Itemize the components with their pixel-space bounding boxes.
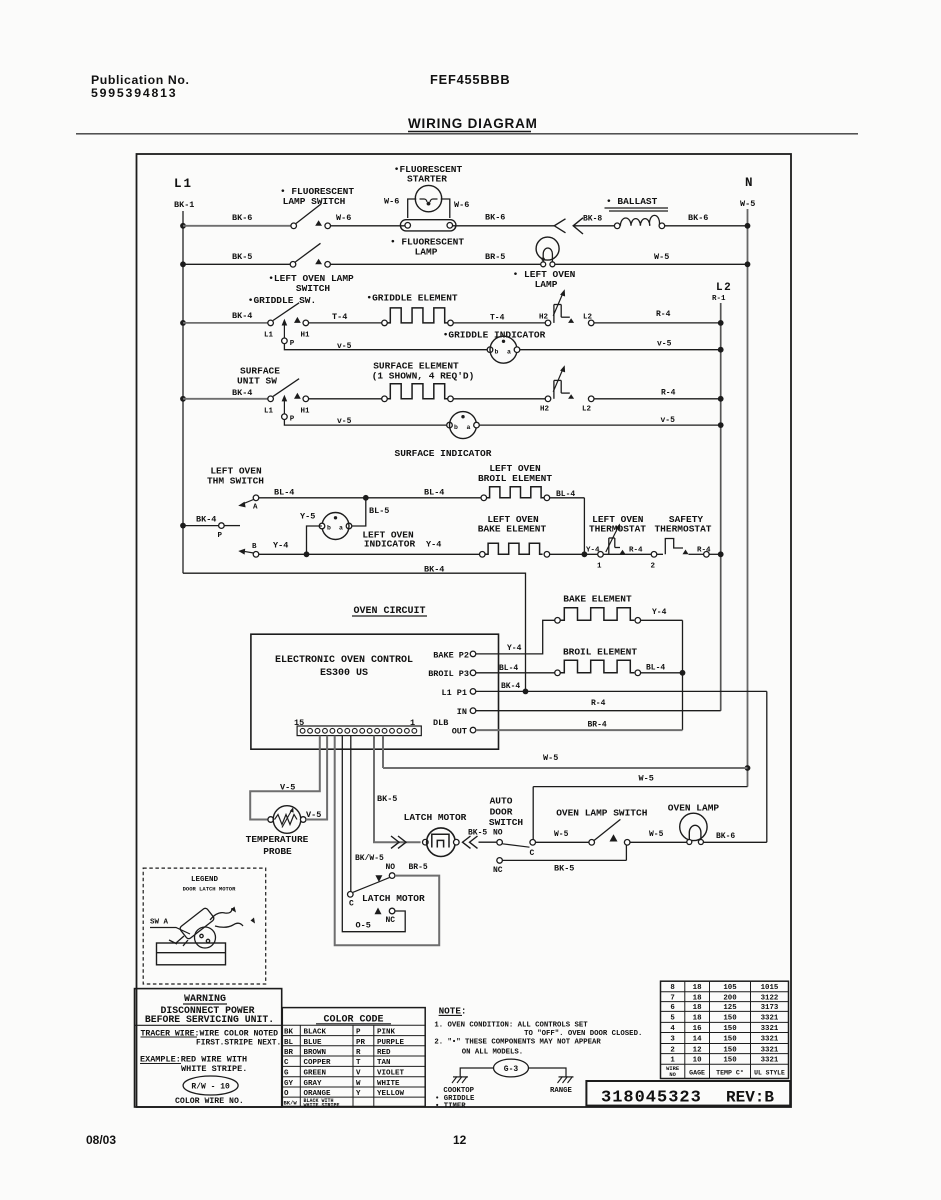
svg-text:COLOR WIRE NO.: COLOR WIRE NO. bbox=[175, 1097, 244, 1106]
svg-text:BK-6: BK-6 bbox=[485, 213, 505, 223]
svg-text:(1 SHOWN, 4 REQ'D): (1 SHOWN, 4 REQ'D) bbox=[372, 370, 475, 381]
lamp left oven lamp bbox=[536, 237, 559, 260]
svg-text:TEMP C°: TEMP C° bbox=[716, 1068, 744, 1076]
wire corner down to row B bbox=[583, 498, 585, 555]
svg-text:• BALLAST: • BALLAST bbox=[606, 196, 658, 207]
svg-text:YELLOW: YELLOW bbox=[377, 1090, 405, 1098]
terminal NC latch interlock bbox=[389, 908, 395, 914]
wire rail5 R-4 to L2 bbox=[594, 398, 721, 400]
svg-text:18: 18 bbox=[693, 1015, 702, 1023]
terminal 1 bbox=[598, 552, 604, 558]
svg-text:DOOR: DOOR bbox=[490, 806, 513, 817]
svg-text:L1: L1 bbox=[264, 332, 274, 340]
svg-text:BK-5: BK-5 bbox=[232, 252, 252, 262]
fluorescent starter bbox=[415, 185, 441, 211]
connector G-3 ellipse bbox=[494, 1059, 529, 1077]
legend box dashed frame bbox=[143, 868, 266, 984]
svg-text:RED: RED bbox=[377, 1049, 391, 1057]
wire W-5 pin drop bbox=[382, 736, 384, 768]
wire BL-5 down to indicator bbox=[352, 498, 366, 526]
part number box bbox=[586, 1081, 790, 1106]
svg-text:VIOLET: VIOLET bbox=[377, 1070, 405, 1078]
svg-text:H1: H1 bbox=[301, 407, 311, 415]
svg-text:W-5: W-5 bbox=[740, 199, 755, 209]
wire G-3 right to range ground bbox=[529, 1068, 567, 1077]
svg-text:12: 12 bbox=[693, 1046, 702, 1054]
svg-text:105: 105 bbox=[723, 984, 737, 992]
svg-text:WIRING DIAGRAM: WIRING DIAGRAM bbox=[408, 116, 538, 131]
svg-text:ELECTRONIC OVEN CONTROL: ELECTRONIC OVEN CONTROL bbox=[275, 655, 413, 666]
svg-text:18: 18 bbox=[693, 994, 702, 1002]
svg-text:OVEN LAMP: OVEN LAMP bbox=[668, 803, 720, 814]
svg-text:C: C bbox=[530, 849, 535, 858]
thermistor temperature probe bbox=[268, 817, 274, 823]
svg-text:NO: NO bbox=[386, 863, 396, 872]
svg-text:3321: 3321 bbox=[761, 1015, 779, 1023]
svg-text:Y-4: Y-4 bbox=[652, 608, 667, 617]
wire N right rail bbox=[747, 209, 749, 787]
wire broil element to junction bbox=[641, 672, 683, 674]
wire rail5 to surface element bbox=[309, 398, 382, 400]
svg-text:L2: L2 bbox=[716, 282, 732, 294]
wire gauge table grid bbox=[661, 991, 789, 993]
warning separator line bbox=[135, 1024, 282, 1026]
svg-text:NOTE:: NOTE: bbox=[439, 1005, 467, 1016]
svg-text:1. OVEN CONDITION: ALL CONTROL: 1. OVEN CONDITION: ALL CONTROLS SET bbox=[434, 1021, 588, 1029]
switch griddle switch pole L1-H1 bbox=[268, 320, 274, 326]
wire BK-4 stub to terminal P bbox=[183, 525, 219, 527]
svg-text:BK-5: BK-5 bbox=[377, 794, 397, 804]
svg-text:OUT: OUT bbox=[452, 727, 467, 737]
svg-text:Y-5: Y-5 bbox=[300, 512, 315, 522]
svg-text:LAMP: LAMP bbox=[415, 247, 438, 258]
svg-text:R/W - 10: R/W - 10 bbox=[191, 1083, 230, 1092]
ground cooktop bbox=[453, 1076, 468, 1078]
chevrons latch motor right bbox=[463, 836, 471, 848]
svg-text:N: N bbox=[745, 176, 753, 190]
svg-text:3122: 3122 bbox=[761, 994, 779, 1002]
svg-text:GRAY: GRAY bbox=[304, 1080, 323, 1088]
wire rail1 BK-6 from L1 to fluorescent lamp switch bbox=[183, 225, 291, 227]
wire O-5 NC loop to connector bbox=[342, 736, 405, 932]
wire C drop auto door switch bbox=[532, 787, 534, 840]
svg-text:C: C bbox=[349, 900, 354, 909]
svg-text:v-5: v-5 bbox=[657, 340, 672, 349]
svg-text:BK: BK bbox=[284, 1029, 294, 1037]
svg-text:W-5: W-5 bbox=[639, 774, 654, 784]
svg-text:Y-4: Y-4 bbox=[273, 541, 288, 551]
wire rail1 BK-6 lamp to ballast arrow bbox=[453, 225, 555, 227]
svg-text:C: C bbox=[284, 1059, 289, 1067]
wire G-3 left to cooktop ground bbox=[460, 1068, 493, 1077]
svg-text:P: P bbox=[290, 416, 295, 424]
svg-text:1015: 1015 bbox=[761, 984, 779, 992]
wire W-5 C to oven lamp switch bbox=[536, 841, 589, 843]
terminal P thm switch bbox=[219, 523, 225, 529]
junction dots on L1 rail bbox=[180, 223, 186, 229]
svg-text:T-4: T-4 bbox=[332, 312, 347, 322]
resistor bake element oven circuit bbox=[555, 618, 561, 624]
example wire code ellipse R/W - 10 bbox=[183, 1076, 238, 1095]
wire rail2 BK-5 from L1 bbox=[183, 263, 290, 265]
svg-text:BK/W-5: BK/W-5 bbox=[355, 854, 384, 863]
svg-text:200: 200 bbox=[723, 994, 737, 1002]
terminal B bbox=[253, 552, 259, 558]
svg-text:DOOR LATCH MOTOR: DOOR LATCH MOTOR bbox=[183, 886, 237, 893]
wire Y-4 bake element to corner bbox=[641, 619, 683, 621]
junction dots on N rail bbox=[745, 223, 751, 229]
indicator left oven indicator bbox=[346, 523, 352, 529]
svg-text:16: 16 bbox=[693, 1025, 702, 1033]
svg-text:G-3: G-3 bbox=[504, 1065, 519, 1074]
svg-text:SWITCH: SWITCH bbox=[296, 283, 331, 294]
svg-text:BK-5: BK-5 bbox=[554, 864, 574, 874]
svg-text:BROIL ELEMENT: BROIL ELEMENT bbox=[563, 647, 637, 658]
connector strip P15-P1 bbox=[297, 726, 421, 736]
svg-text:R-4: R-4 bbox=[661, 389, 676, 398]
terminal safety right bbox=[704, 552, 710, 558]
svg-text:WHITE STRIPE.: WHITE STRIPE. bbox=[181, 1064, 247, 1074]
svg-text:L1: L1 bbox=[174, 177, 193, 191]
svg-text:WHITE STRIPE: WHITE STRIPE bbox=[304, 1102, 340, 1108]
junction dot BK-4 on L1P1 bbox=[523, 689, 529, 695]
terminal 2 bbox=[651, 552, 657, 558]
switch oven lamp switch bbox=[589, 840, 595, 846]
svg-text:3321: 3321 bbox=[761, 1036, 779, 1044]
svg-text:08/03: 08/03 bbox=[86, 1133, 116, 1147]
svg-text:LATCH MOTOR: LATCH MOTOR bbox=[404, 812, 467, 823]
wire BK/W-5 pin drop to C bbox=[350, 736, 352, 892]
color code table grid bbox=[282, 1024, 425, 1026]
svg-text:BL-4: BL-4 bbox=[646, 664, 665, 673]
svg-text:BR-4: BR-4 bbox=[588, 721, 607, 730]
svg-text:TO "OFF". OVEN DOOR CLOSED.: TO "OFF". OVEN DOOR CLOSED. bbox=[524, 1030, 642, 1038]
svg-text:O-5: O-5 bbox=[356, 921, 371, 931]
svg-text:BLACK: BLACK bbox=[304, 1029, 327, 1037]
svg-text:BK-5: BK-5 bbox=[468, 829, 487, 838]
svg-text:5995394813: 5995394813 bbox=[91, 86, 177, 100]
svg-text:NO: NO bbox=[493, 829, 503, 838]
terminal NC auto door switch bbox=[497, 858, 503, 864]
resistor left oven bake element bbox=[480, 552, 486, 558]
svg-text:B: B bbox=[252, 543, 257, 551]
svg-text:TEMPERATURE: TEMPERATURE bbox=[246, 834, 309, 845]
svg-text:O: O bbox=[284, 1090, 289, 1098]
svg-text:b: b bbox=[327, 525, 331, 532]
svg-text:BROIL ELEMENT: BROIL ELEMENT bbox=[478, 473, 552, 484]
svg-text:4: 4 bbox=[670, 1025, 675, 1033]
door latch motor base bbox=[157, 943, 226, 965]
svg-text:INDICATOR: INDICATOR bbox=[364, 539, 416, 550]
svg-text:REV:B: REV:B bbox=[726, 1089, 774, 1107]
svg-text:PR: PR bbox=[356, 1039, 366, 1047]
svg-text:V-5: V-5 bbox=[280, 783, 295, 793]
svg-text:LATCH MOTOR: LATCH MOTOR bbox=[362, 893, 425, 904]
svg-text:NC: NC bbox=[493, 866, 503, 875]
svg-text:•GRIDDLE INDICATOR: •GRIDDLE INDICATOR bbox=[443, 330, 546, 341]
wire rail2 W-5 to N bbox=[555, 263, 747, 265]
svg-text:18: 18 bbox=[693, 984, 702, 992]
switch blades thm switch bbox=[243, 500, 254, 504]
svg-text:v-5: v-5 bbox=[337, 417, 352, 426]
diagram border frame bbox=[137, 154, 792, 1107]
svg-text:8: 8 bbox=[670, 984, 675, 992]
wire P to v-5 rail4 bbox=[284, 344, 488, 350]
svg-text:UNIT SW: UNIT SW bbox=[237, 376, 277, 387]
wire rail3 T-4 to griddle thermostat bbox=[453, 322, 545, 324]
svg-text:a: a bbox=[467, 424, 471, 431]
indicator surface indicator bbox=[447, 422, 453, 428]
svg-text:THM SWITCH: THM SWITCH bbox=[207, 476, 264, 487]
resistor left oven broil element bbox=[481, 495, 487, 501]
svg-text:BL-4: BL-4 bbox=[556, 490, 575, 499]
svg-text:BK-4: BK-4 bbox=[501, 682, 520, 691]
svg-text:BK-4: BK-4 bbox=[196, 515, 216, 525]
svg-text:BAKE ELEMENT: BAKE ELEMENT bbox=[478, 524, 547, 535]
warning box frame bbox=[135, 989, 282, 1107]
svg-text:FIRST.STRIPE NEXT.: FIRST.STRIPE NEXT. bbox=[196, 1038, 281, 1047]
junction dot BL-5 tap bbox=[363, 495, 369, 501]
svg-text:BK-4: BK-4 bbox=[424, 565, 444, 575]
wire BK-4 from L1 rail bottom bbox=[183, 573, 526, 691]
switch left oven lamp switch bbox=[290, 262, 296, 268]
wire rail1 BK-6 ballast to N bbox=[665, 225, 748, 227]
svg-text:THERMOSTAT: THERMOSTAT bbox=[654, 524, 711, 535]
switch blade C to NO bbox=[353, 878, 389, 893]
svg-text:GAGE: GAGE bbox=[689, 1069, 705, 1076]
wire L2 rail bbox=[720, 303, 722, 711]
resistor griddle element bbox=[382, 320, 388, 326]
svg-text:2: 2 bbox=[670, 1046, 674, 1054]
wire bake to junction bbox=[550, 553, 598, 555]
header rule line bbox=[76, 133, 858, 135]
svg-text:BK-4: BK-4 bbox=[232, 388, 252, 398]
svg-text:TAN: TAN bbox=[377, 1059, 391, 1067]
svg-text:WARNING: WARNING bbox=[184, 994, 226, 1005]
terminal C latch interlock bbox=[348, 892, 354, 898]
wire to L2 junction bbox=[709, 553, 721, 555]
svg-text:Y-4: Y-4 bbox=[426, 540, 441, 550]
wire rail2 BR-5 to left oven lamp bbox=[330, 263, 540, 265]
svg-text:P: P bbox=[356, 1029, 361, 1037]
svg-text:L2: L2 bbox=[582, 405, 592, 413]
svg-text:W-6: W-6 bbox=[454, 200, 469, 210]
svg-text:3321: 3321 bbox=[761, 1046, 779, 1054]
color code table frame bbox=[282, 1008, 425, 1107]
inductor ballast coil bbox=[614, 223, 620, 229]
svg-text:IN: IN bbox=[457, 707, 467, 717]
svg-text:2. "•" THESE COMPONENTS MAY NO: 2. "•" THESE COMPONENTS MAY NOT APPEAR bbox=[434, 1039, 601, 1047]
svg-text:GY: GY bbox=[284, 1080, 294, 1088]
wire BK-8 to ballast bbox=[573, 225, 614, 227]
svg-text:v-5: v-5 bbox=[337, 342, 352, 351]
wire SW A lead bbox=[150, 928, 190, 935]
svg-text:NC: NC bbox=[386, 916, 396, 925]
wire W-5 horizontal to N rail bbox=[383, 767, 748, 769]
svg-text:BK-6: BK-6 bbox=[232, 213, 252, 223]
thermostat left oven thermostat bbox=[603, 553, 663, 555]
svg-text:150: 150 bbox=[723, 1057, 737, 1065]
svg-text:•GRIDDLE SW.: •GRIDDLE SW. bbox=[248, 295, 316, 306]
switch fluorescent lamp switch bbox=[291, 223, 297, 229]
wire indicator left lead to row B bbox=[307, 526, 322, 554]
svg-text:BAKE ELEMENT: BAKE ELEMENT bbox=[563, 594, 632, 605]
svg-text:GREEN: GREEN bbox=[304, 1070, 327, 1078]
terminal A bbox=[253, 495, 259, 501]
svg-text:R-1: R-1 bbox=[712, 295, 726, 303]
svg-text:v-5: v-5 bbox=[661, 416, 676, 425]
svg-text:12: 12 bbox=[453, 1133, 467, 1147]
svg-text:BK/W: BK/W bbox=[284, 1100, 298, 1107]
svg-text:PROBE: PROBE bbox=[263, 846, 292, 857]
wire safety thermostat to terminal bbox=[689, 553, 704, 555]
wire BK-6 oven lamp to L1P1 drop bbox=[703, 841, 766, 843]
electronic oven control ES300 box bbox=[251, 634, 499, 749]
svg-text:7: 7 bbox=[670, 994, 674, 1002]
svg-text:T-4: T-4 bbox=[490, 314, 505, 323]
svg-text:DLB: DLB bbox=[433, 718, 448, 728]
lamp oven lamp bbox=[680, 813, 707, 840]
wire L1 left rail bbox=[182, 211, 184, 573]
svg-text:WHITE: WHITE bbox=[377, 1080, 400, 1088]
svg-text:LAMP SWITCH: LAMP SWITCH bbox=[283, 196, 346, 207]
svg-text:P: P bbox=[290, 340, 295, 348]
svg-text:150: 150 bbox=[723, 1025, 737, 1033]
wire rail5 to surface thermostat bbox=[453, 398, 545, 400]
junction dot row B bbox=[304, 551, 310, 557]
wire corner down to OUT wire bbox=[682, 620, 684, 730]
svg-text:SWITCH: SWITCH bbox=[489, 817, 524, 828]
wire BR-5 NO loop to connector bbox=[335, 736, 440, 946]
wire rail4 v-5 to L2 bbox=[520, 349, 721, 351]
wire BK-4 L1P1 to oven lamp drop bbox=[476, 690, 767, 692]
svg-text:STARTER: STARTER bbox=[407, 174, 447, 185]
chevrons latch motor left bbox=[391, 836, 399, 848]
svg-text:BR-5: BR-5 bbox=[485, 252, 505, 262]
svg-text:BK-8: BK-8 bbox=[583, 215, 602, 224]
svg-text:1: 1 bbox=[670, 1057, 675, 1065]
svg-text:V-5: V-5 bbox=[306, 810, 321, 820]
svg-text:NO: NO bbox=[669, 1072, 676, 1078]
wire row B Y-4 bbox=[259, 553, 480, 555]
wire Y-4 bake p2 to bake element bbox=[476, 620, 555, 654]
svg-text:BL: BL bbox=[284, 1039, 294, 1047]
svg-text:3321: 3321 bbox=[761, 1057, 779, 1065]
svg-text:SW A: SW A bbox=[150, 919, 169, 927]
wire BL-4 broil p3 to broil element bbox=[476, 672, 555, 674]
svg-text:150: 150 bbox=[723, 1046, 737, 1054]
svg-text:LEGEND: LEGEND bbox=[191, 876, 219, 884]
svg-text:3173: 3173 bbox=[761, 1004, 779, 1012]
svg-text:10: 10 bbox=[693, 1057, 702, 1065]
svg-text:H1: H1 bbox=[301, 332, 311, 340]
wire drop to oven lamp BK-6 bbox=[766, 691, 768, 842]
svg-text:BR-5: BR-5 bbox=[409, 863, 428, 872]
svg-text:BK-6: BK-6 bbox=[716, 832, 735, 841]
svg-text:L1: L1 bbox=[264, 407, 274, 415]
wire R-4 IN to L2 rail bbox=[476, 710, 721, 712]
wire W-5 to oven lamp bbox=[630, 841, 687, 843]
svg-text:3: 3 bbox=[670, 1036, 675, 1044]
svg-text:•GRIDDLE ELEMENT: •GRIDDLE ELEMENT bbox=[366, 293, 458, 304]
svg-text:W-5: W-5 bbox=[543, 753, 558, 763]
svg-text:FEF455BBB: FEF455BBB bbox=[430, 72, 510, 87]
svg-text:Y: Y bbox=[356, 1090, 361, 1098]
svg-text:W-5: W-5 bbox=[654, 252, 669, 262]
svg-text:6: 6 bbox=[670, 1004, 675, 1012]
wire rail3 BK-4 from L1 bbox=[183, 322, 268, 324]
terminal P surface switch bbox=[282, 414, 288, 420]
connector chevron arrows bbox=[554, 219, 565, 233]
svg-text:H2: H2 bbox=[540, 405, 550, 413]
svg-text:W-5: W-5 bbox=[554, 830, 569, 839]
svg-text:b: b bbox=[454, 424, 458, 431]
switch surface unit switch pole L1-H1 bbox=[268, 396, 274, 402]
switch auto door switch NO-C bbox=[497, 840, 503, 846]
svg-text:14: 14 bbox=[693, 1036, 702, 1044]
svg-text:L1 P1: L1 P1 bbox=[441, 688, 467, 698]
svg-text:PURPLE: PURPLE bbox=[377, 1039, 405, 1047]
wire BK-5 pin drop to latch row bbox=[374, 736, 421, 843]
fluorescent lamp tube bbox=[400, 220, 456, 231]
svg-text:OVEN LAMP SWITCH: OVEN LAMP SWITCH bbox=[556, 807, 648, 818]
wire gauge table frame bbox=[661, 981, 789, 1078]
svg-text:W-6: W-6 bbox=[336, 213, 351, 223]
svg-text:EXAMPLE:RED WIRE WITH: EXAMPLE:RED WIRE WITH bbox=[140, 1055, 247, 1065]
wire to auto door switch NO bbox=[479, 841, 497, 843]
svg-text:R-4: R-4 bbox=[591, 699, 606, 708]
svg-text:BROWN: BROWN bbox=[304, 1049, 327, 1057]
svg-text:BR: BR bbox=[284, 1049, 294, 1057]
motor latch motor bbox=[423, 839, 429, 845]
svg-text:a: a bbox=[339, 525, 343, 532]
svg-text:1: 1 bbox=[597, 563, 602, 571]
svg-text:BL-4: BL-4 bbox=[499, 664, 518, 673]
svg-text:BL-5: BL-5 bbox=[369, 506, 389, 516]
wire BL-4 broil to corner bbox=[550, 497, 585, 499]
wire BR-4 OUT to bake/broil corner bbox=[476, 729, 683, 731]
wire V-5 probe right up to pin bbox=[306, 736, 327, 820]
svg-text:W: W bbox=[356, 1080, 361, 1088]
svg-text:BAKE P2: BAKE P2 bbox=[433, 650, 469, 660]
svg-text:BK-4: BK-4 bbox=[232, 311, 252, 321]
wire rail6 v-5 to L2 bbox=[479, 424, 720, 426]
svg-text:• TIMER: • TIMER bbox=[435, 1103, 466, 1111]
svg-text:5: 5 bbox=[670, 1015, 675, 1023]
svg-text:BL-4: BL-4 bbox=[274, 488, 294, 498]
svg-text:BL-4: BL-4 bbox=[424, 488, 444, 498]
svg-text:ES300 US: ES300 US bbox=[320, 668, 368, 679]
svg-text:b: b bbox=[495, 349, 499, 356]
svg-text:BK-6: BK-6 bbox=[688, 213, 708, 223]
svg-text:R: R bbox=[356, 1049, 361, 1057]
svg-text:P: P bbox=[218, 532, 223, 540]
svg-text:SURFACE INDICATOR: SURFACE INDICATOR bbox=[395, 448, 492, 459]
svg-text:125: 125 bbox=[723, 1004, 737, 1012]
terminal NO latch interlock bbox=[389, 873, 395, 879]
svg-text:W-6: W-6 bbox=[384, 197, 399, 207]
svg-text:18: 18 bbox=[693, 1004, 702, 1012]
svg-text:UL STYLE: UL STYLE bbox=[754, 1069, 785, 1076]
svg-text:150: 150 bbox=[723, 1015, 737, 1023]
svg-text:W-5: W-5 bbox=[649, 830, 664, 839]
wire rail5 BK-4 from L1 bbox=[183, 398, 268, 400]
wire rail3 to griddle element bbox=[309, 322, 382, 324]
junction dots on L2 rail bbox=[718, 320, 724, 326]
svg-text:R-4: R-4 bbox=[656, 310, 671, 319]
svg-text:3321: 3321 bbox=[761, 1025, 779, 1033]
thermostat safety thermostat bbox=[665, 539, 683, 555]
